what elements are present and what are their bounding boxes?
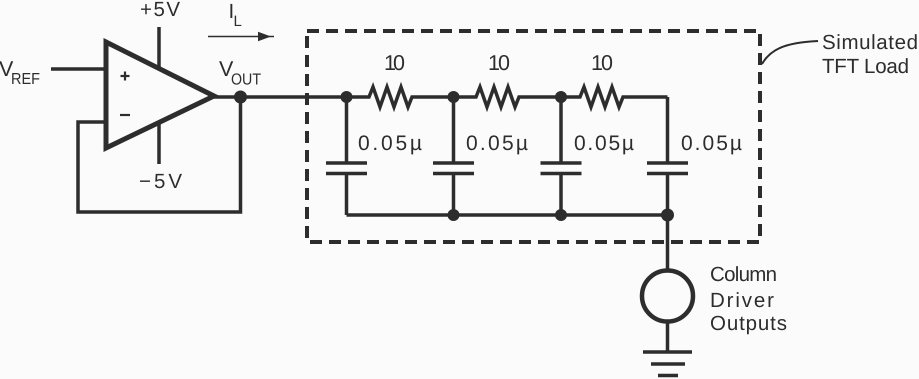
capacitor C1 [326,97,367,215]
wire op-amp output main horizontal rail with resistor zigzags [214,87,668,107]
label V_OUT [219,57,261,89]
op-amp + input symbol [121,72,130,81]
arrow I_L current direction [208,32,274,41]
op-amp - input symbol [120,114,130,116]
capacitor C3 [541,97,582,215]
ground [643,352,692,376]
node junction dot R1-C1 [341,91,353,103]
capacitor C4 [647,97,688,215]
svg-text:−5V: −5V [139,170,182,193]
wire feedback loop (- input, around below to V_OUT node) [78,97,241,212]
node junction dot rail-C4-output [661,209,674,222]
label Column Driver Outputs [710,263,787,335]
node junction dot rail-C3 [555,209,567,221]
capacitor C2 [433,97,474,215]
svg-text:Simulated: Simulated [822,31,918,54]
label V_REF [0,57,40,88]
svg-text:0.05µ: 0.05µ [681,132,742,155]
svg-text:0.05µ: 0.05µ [358,132,422,155]
column driver output source circle [642,271,693,322]
svg-text:10: 10 [591,51,613,75]
wire bottom rail of ladder [347,213,668,217]
svg-text:TFT Load: TFT Load [822,55,909,78]
svg-text:0.05µ: 0.05µ [466,132,528,155]
node junction dot R1-R2-C2 [448,91,460,103]
pointer line to Simulated TFT Load label [762,41,818,64]
svg-text:REF: REF [11,71,40,88]
svg-text:Outputs: Outputs [710,312,787,335]
wire circle to ground [666,324,670,353]
svg-text:0.05µ: 0.05µ [574,132,634,155]
svg-text:Driver: Driver [710,289,774,312]
wire V_REF to op-amp + input [51,67,106,71]
node junction dot R2-R3-C3 [555,91,567,103]
node V_OUT junction dot [234,91,247,104]
svg-text:+5V: +5V [140,0,180,21]
label Simulated TFT Load [822,31,918,78]
label I_L [229,0,242,30]
node junction dot rail-C2 [448,209,460,221]
wire +5V / -5V supply vertical [157,27,161,164]
svg-text:10: 10 [384,51,405,75]
dashed box simulated TFT load [307,31,760,242]
svg-text:10: 10 [488,51,510,75]
svg-text:OUT: OUT [231,72,261,89]
wire rail down to column driver circle [666,215,670,269]
svg-text:Column: Column [710,263,777,286]
op-amp U1 [106,42,214,148]
svg-text:L: L [234,13,242,30]
